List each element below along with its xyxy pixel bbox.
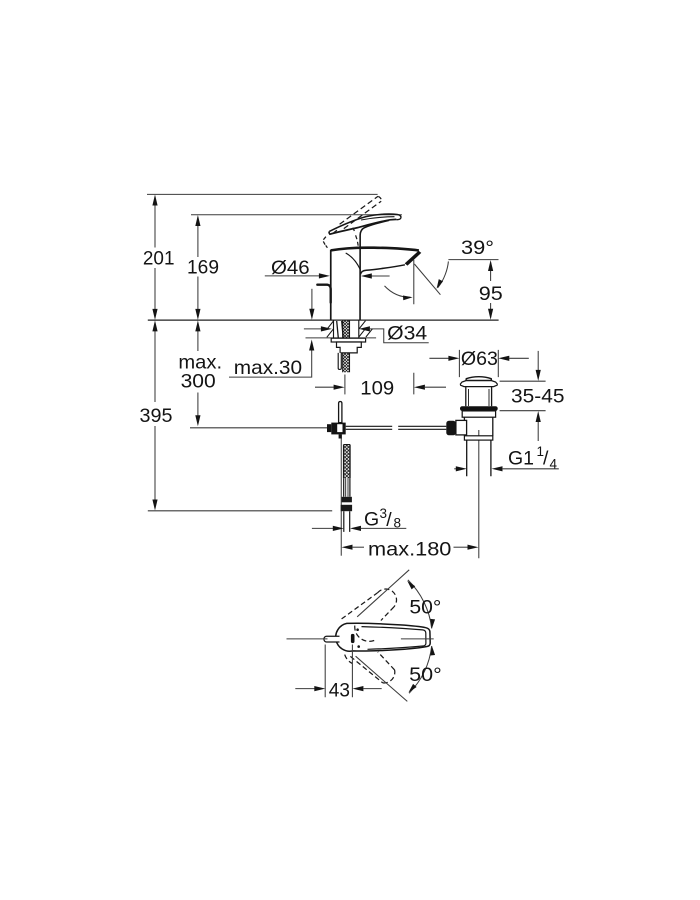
dimension dia 46 [265,257,390,279]
tap pull rod through counter hole [337,321,344,338]
extension line: pop-up rod level [190,427,327,429]
ball-joint cylinder [456,420,467,435]
faucet body left edge [330,250,332,320]
dimension 35-45 [500,351,565,441]
top view pull-rod stub [324,636,340,642]
svg-text:50°: 50° [409,597,441,619]
countertop hatching [327,321,373,338]
waste body collar [462,411,495,417]
top view handle dots [356,628,359,631]
50 deg lower arc [407,646,442,695]
hose nut [341,505,352,511]
top view centre line [287,638,434,640]
svg-text:/: / [386,509,392,531]
dimension G 3/8 [312,506,406,531]
top view handle top face [362,627,426,650]
faucet lever (closed position) [329,214,401,320]
top view dashed handle rotated up [342,589,397,641]
hose fitting collar [342,497,352,503]
svg-text:39°: 39° [461,237,494,259]
50 deg lower axis line [356,656,408,701]
hose connection pipe G3/8 [344,511,350,532]
extension line: top of closed lever (169 level) [191,214,402,216]
faucet body top surface [331,248,419,251]
extension line: top of open lever (201 level) [147,193,378,195]
extension line: spout outlet vertical [413,260,415,395]
svg-text:G: G [364,509,379,531]
mounting washer [331,338,365,342]
ball-joint knob [446,421,456,436]
svg-text:50°: 50° [409,664,442,686]
dimension 395 [140,320,173,510]
pull-rod knob behind body [317,285,330,303]
svg-text:max.180: max.180 [368,539,452,561]
svg-text:G1: G1 [508,448,534,470]
faucet lever (open position, dashed) [323,196,381,248]
dimension 95 [479,260,503,320]
50 deg upper arc [405,579,441,629]
39 deg arc to slanted line [438,261,449,287]
extension line: tap centre below shank [344,375,346,395]
extension line: hose centre / max180 left [340,438,342,556]
countertop section bottom line [306,337,377,339]
svg-text:169: 169 [187,257,219,279]
svg-text:Ø63: Ø63 [461,348,498,370]
svg-text:35-45: 35-45 [511,386,565,408]
top view handle indicator bar [351,634,355,643]
svg-text:300: 300 [181,370,216,392]
dimension 201 [143,195,175,320]
threaded mounting shank [343,320,350,372]
svg-text:43: 43 [329,680,350,702]
top view dashed handle rotated down [345,652,395,683]
counter hole edges [334,320,359,338]
dimension dia 63 [429,348,528,377]
extension line: hose end level (395 bottom) [148,510,332,512]
waste valve body [464,417,492,436]
svg-text:4: 4 [550,457,558,472]
rod coupling block [327,423,346,439]
svg-text:Ø34: Ø34 [387,322,427,344]
39 deg arc to vertical line [385,286,411,298]
svg-text:395: 395 [140,405,173,427]
top view handle outline [336,623,430,651]
extension line: drain centre / max180 right [478,430,480,558]
dimension 39 deg: label and reference line [385,237,499,300]
dimension max.30 leader [229,289,315,379]
pull rod lower section [339,402,342,423]
tailpipe G1 1/4 [467,440,491,476]
dimension dia 34 [304,322,429,344]
svg-text:max.30: max.30 [234,357,302,379]
countertop line [148,319,499,321]
dimension 109 [315,378,446,400]
flexible hose braided section [344,445,351,479]
horizontal pop-up rod [346,426,447,429]
svg-text:95: 95 [479,283,503,305]
dimension G1 1/4 [454,444,559,472]
dimension 43 [295,645,381,702]
svg-text:/: / [543,448,549,470]
dimension 169 [187,215,219,320]
dimension max.300 [178,320,222,426]
svg-text:109: 109 [360,378,394,400]
pop-up waste plug cap [466,377,492,381]
body-spout seam curve [346,253,361,271]
dimension max.180 [342,539,479,561]
pull rod below nut [338,353,341,370]
svg-text:8: 8 [394,516,402,531]
50 deg upper axis line [357,570,409,617]
pop-up waste neck [466,387,492,407]
spout underside [360,265,405,275]
hose smooth sleeve [344,478,350,497]
slip nut [464,436,492,440]
spout aerator face [405,251,422,266]
39 deg slanted outlet axis line [414,264,440,295]
pop-up waste flange [460,381,497,387]
svg-text:201: 201 [143,247,175,269]
mounting nut [337,342,362,353]
rubber gasket [460,406,498,411]
